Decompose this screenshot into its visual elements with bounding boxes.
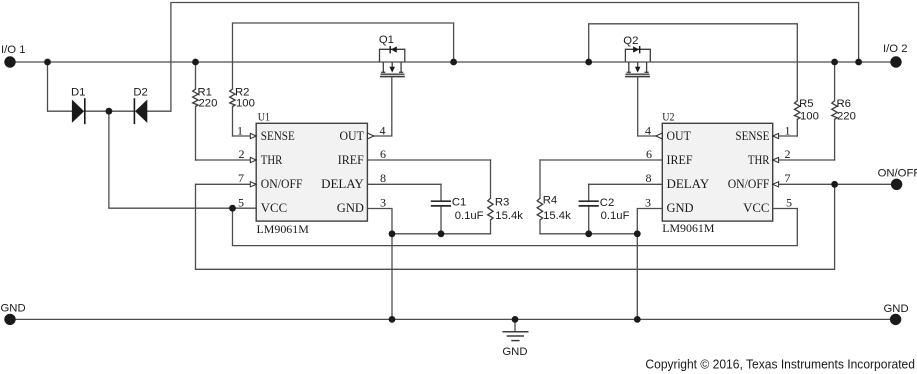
svg-text:GND: GND [884, 303, 909, 315]
svg-text:I/O 2: I/O 2 [883, 43, 908, 55]
svg-text:C2: C2 [600, 197, 614, 209]
svg-text:D1: D1 [71, 87, 85, 99]
svg-text:Copyright © 2016, Texas Instru: Copyright © 2016, Texas Instruments Inco… [645, 358, 915, 372]
svg-text:8: 8 [646, 171, 652, 185]
svg-text:C1: C1 [452, 197, 466, 209]
svg-text:100: 100 [800, 111, 819, 123]
svg-text:15.4k: 15.4k [543, 210, 571, 222]
svg-text:6: 6 [646, 147, 652, 161]
svg-text:IREF: IREF [338, 152, 364, 167]
svg-text:R4: R4 [543, 195, 557, 207]
svg-text:U2: U2 [662, 109, 674, 123]
svg-text:ON/OFF: ON/OFF [878, 168, 917, 180]
svg-text:2: 2 [239, 147, 245, 161]
svg-text:ON/OFF: ON/OFF [261, 176, 303, 191]
svg-text:I/O 1: I/O 1 [1, 44, 26, 56]
svg-text:1: 1 [237, 124, 243, 138]
svg-text:GND: GND [667, 200, 694, 215]
svg-text:GND: GND [1, 302, 26, 314]
svg-text:OUT: OUT [667, 128, 691, 143]
svg-text:THR: THR [261, 152, 283, 167]
svg-text:3: 3 [645, 196, 651, 210]
svg-text:5: 5 [238, 196, 244, 210]
svg-text:Q2: Q2 [623, 35, 638, 47]
svg-text:Q1: Q1 [379, 34, 394, 46]
svg-text:VCC: VCC [743, 200, 769, 215]
svg-text:GND: GND [337, 200, 364, 215]
svg-text:OUT: OUT [340, 128, 364, 143]
svg-text:LM9061M: LM9061M [257, 222, 310, 236]
svg-text:VCC: VCC [261, 200, 287, 215]
svg-text:ON/OFF: ON/OFF [728, 176, 770, 191]
svg-text:D2: D2 [133, 87, 147, 99]
svg-text:1: 1 [785, 124, 791, 138]
svg-text:R5: R5 [799, 98, 813, 110]
svg-text:SENSE: SENSE [735, 128, 769, 143]
svg-text:2: 2 [785, 147, 791, 161]
svg-text:100: 100 [236, 98, 255, 110]
svg-text:3: 3 [380, 196, 386, 210]
svg-text:0.1uF: 0.1uF [455, 210, 484, 222]
svg-text:220: 220 [199, 98, 218, 110]
svg-text:R6: R6 [837, 98, 851, 110]
svg-text:6: 6 [380, 147, 386, 161]
svg-text:DELAY: DELAY [667, 176, 710, 191]
svg-text:LM9061M: LM9061M [662, 221, 715, 235]
svg-text:4: 4 [645, 124, 651, 138]
svg-text:U1: U1 [258, 109, 270, 123]
svg-text:R3: R3 [495, 197, 509, 209]
svg-text:0.1uF: 0.1uF [601, 210, 630, 222]
svg-text:5: 5 [786, 196, 792, 210]
svg-text:4: 4 [380, 124, 386, 138]
svg-text:DELAY: DELAY [321, 176, 364, 191]
svg-text:220: 220 [837, 111, 856, 123]
svg-text:15.4k: 15.4k [495, 210, 523, 222]
svg-text:THR: THR [748, 152, 770, 167]
svg-text:8: 8 [380, 171, 386, 185]
svg-text:IREF: IREF [667, 152, 693, 167]
svg-text:SENSE: SENSE [261, 128, 295, 143]
svg-text:7: 7 [785, 171, 791, 185]
svg-text:7: 7 [238, 171, 244, 185]
svg-text:GND: GND [502, 346, 527, 358]
